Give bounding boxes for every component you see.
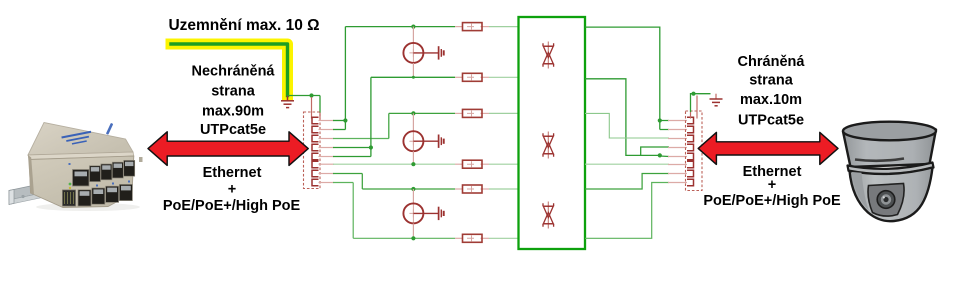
- camera rim band: [848, 163, 934, 175]
- wire riser E: [352, 183, 354, 239]
- arrow left: [148, 132, 308, 166]
- wire X2 to ground: [691, 94, 711, 112]
- camera lens: [877, 191, 895, 209]
- camera top rim: [843, 122, 936, 141]
- camera lens plate: [868, 184, 904, 217]
- svg-text:strana: strana: [211, 83, 255, 99]
- wire out row2: [585, 79, 660, 156]
- camera (protected device): [843, 122, 936, 221]
- earth E1: [439, 46, 444, 59]
- surge arrester F2: [403, 113, 438, 164]
- wire: [319, 96, 321, 114]
- logo on top: [61, 131, 92, 147]
- switch body top face: [28, 123, 133, 156]
- dome shading: [852, 172, 869, 211]
- node row4 junction: [411, 162, 415, 166]
- svg-text:+: +: [768, 177, 776, 193]
- SCHEMATIC-LEFT: [171, 27, 413, 239]
- terminal block: [63, 190, 76, 206]
- svg-text:max.10m: max.10m: [740, 92, 802, 108]
- switch body front face: [29, 156, 134, 208]
- node row6 junction: [411, 236, 415, 240]
- wire row2: [371, 76, 455, 78]
- din rail: [9, 183, 47, 201]
- node gnd junction: [309, 93, 313, 97]
- svg-text:PoE/PoE+/High PoE: PoE/PoE+/High PoE: [163, 198, 301, 214]
- TVS module box U1: [519, 17, 586, 249]
- resistor R5: [463, 185, 483, 193]
- switch shadow: [36, 203, 140, 211]
- wire row6: [353, 237, 455, 239]
- svg-text:strana: strana: [749, 72, 793, 88]
- svg-text:PoE/PoE+/High PoE: PoE/PoE+/High PoE: [703, 193, 841, 209]
- wire pin4: [333, 147, 371, 149]
- earth E2: [439, 135, 444, 148]
- wire riser D: [361, 174, 363, 190]
- svg-text:Nechráněná: Nechráněná: [191, 63, 275, 79]
- SCHEMATIC-RIGHT: [585, 27, 723, 238]
- node row3 junction: [411, 111, 415, 115]
- wire pin2: [333, 129, 345, 131]
- wire pin7: [333, 173, 362, 175]
- connector X1 (unprotected side): [304, 112, 321, 189]
- TVS diode D2: [543, 132, 554, 159]
- pin shield leads: [311, 97, 313, 119]
- surge arrester F3: [403, 189, 438, 238]
- resistor R2: [463, 73, 483, 81]
- svg-text:max.90m: max.90m: [202, 103, 264, 119]
- wire to pin4: [641, 147, 669, 155]
- wire riser C: [370, 77, 372, 156]
- wire row5: [362, 188, 455, 190]
- resistor R3: [463, 109, 483, 117]
- node gnd2 junction: [691, 92, 695, 96]
- wire out row5: [585, 174, 669, 190]
- svg-text:Chráněná: Chráněná: [738, 54, 806, 70]
- switch top lip: [28, 152, 134, 160]
- wire pin3: [333, 138, 389, 140]
- wire to pin2: [660, 129, 669, 131]
- wire out row1: [585, 27, 660, 129]
- wire pin5: [333, 156, 371, 158]
- node row1 junction: [411, 25, 415, 29]
- surge arrester F1: [403, 27, 438, 78]
- wire riser B: [388, 113, 390, 138]
- wire to pin5: [660, 155, 669, 158]
- ground GND2: [710, 94, 723, 106]
- arrow right: [698, 132, 838, 164]
- node out2 junction: [658, 153, 662, 157]
- TVS diode D3: [543, 202, 554, 229]
- wire row1: [345, 26, 455, 28]
- wire riser A: [344, 27, 346, 130]
- wire to pin1: [660, 120, 669, 122]
- node pin1 junction: [343, 118, 347, 122]
- pin shield leads X2: [696, 96, 698, 119]
- port uplink: [73, 170, 90, 187]
- resistor R6: [463, 234, 483, 242]
- camera upper housing: [843, 130, 936, 168]
- wire row4: [413, 163, 455, 165]
- connector X2 pin leads: [668, 121, 687, 183]
- connector X2 (protected side): [686, 111, 703, 191]
- port row lower: [78, 184, 132, 206]
- DEVICES: [9, 122, 936, 221]
- wire row3: [389, 112, 455, 114]
- wire out row6: [585, 183, 669, 239]
- connector X1 pins: [312, 117, 319, 185]
- wire pin8: [333, 182, 353, 184]
- svg-text:Ethernet: Ethernet: [203, 165, 262, 181]
- resistor R1: [463, 23, 483, 31]
- wire out row4: [585, 163, 669, 165]
- TVS diode D1: [543, 42, 554, 69]
- ethernet switch photo: [9, 123, 143, 212]
- small blue marks: [69, 157, 143, 187]
- svg-text:+: +: [228, 181, 236, 197]
- node row5 junction: [411, 187, 415, 191]
- wire gnd to connector: [288, 95, 321, 97]
- wire pin1: [333, 120, 345, 122]
- connector X1 pin leads: [319, 121, 335, 183]
- wire out row3: [585, 113, 669, 138]
- wire pin6: [333, 163, 413, 165]
- node row2 junction: [412, 76, 415, 79]
- svg-text:UTPcat5e: UTPcat5e: [738, 113, 804, 129]
- SCHEMATIC-MIDDLE: [345, 17, 585, 249]
- node pin4 junction: [369, 145, 373, 149]
- resistor R4: [463, 160, 483, 168]
- svg-text:Uzemnění max. 10 Ω: Uzemnění max. 10 Ω: [168, 17, 319, 34]
- svg-text:UTPcat5e: UTPcat5e: [200, 122, 266, 138]
- switch body left strip: [28, 155, 34, 195]
- wire grounding (yellow-green highlighted): [171, 44, 288, 95]
- camera slot: [855, 159, 904, 161]
- camera dome body: [850, 168, 933, 222]
- node out1 junction: [658, 118, 662, 122]
- connector X2 pins: [687, 117, 694, 185]
- earth E3: [439, 207, 444, 220]
- ground GND1: [281, 96, 294, 108]
- port row upper: [90, 160, 135, 181]
